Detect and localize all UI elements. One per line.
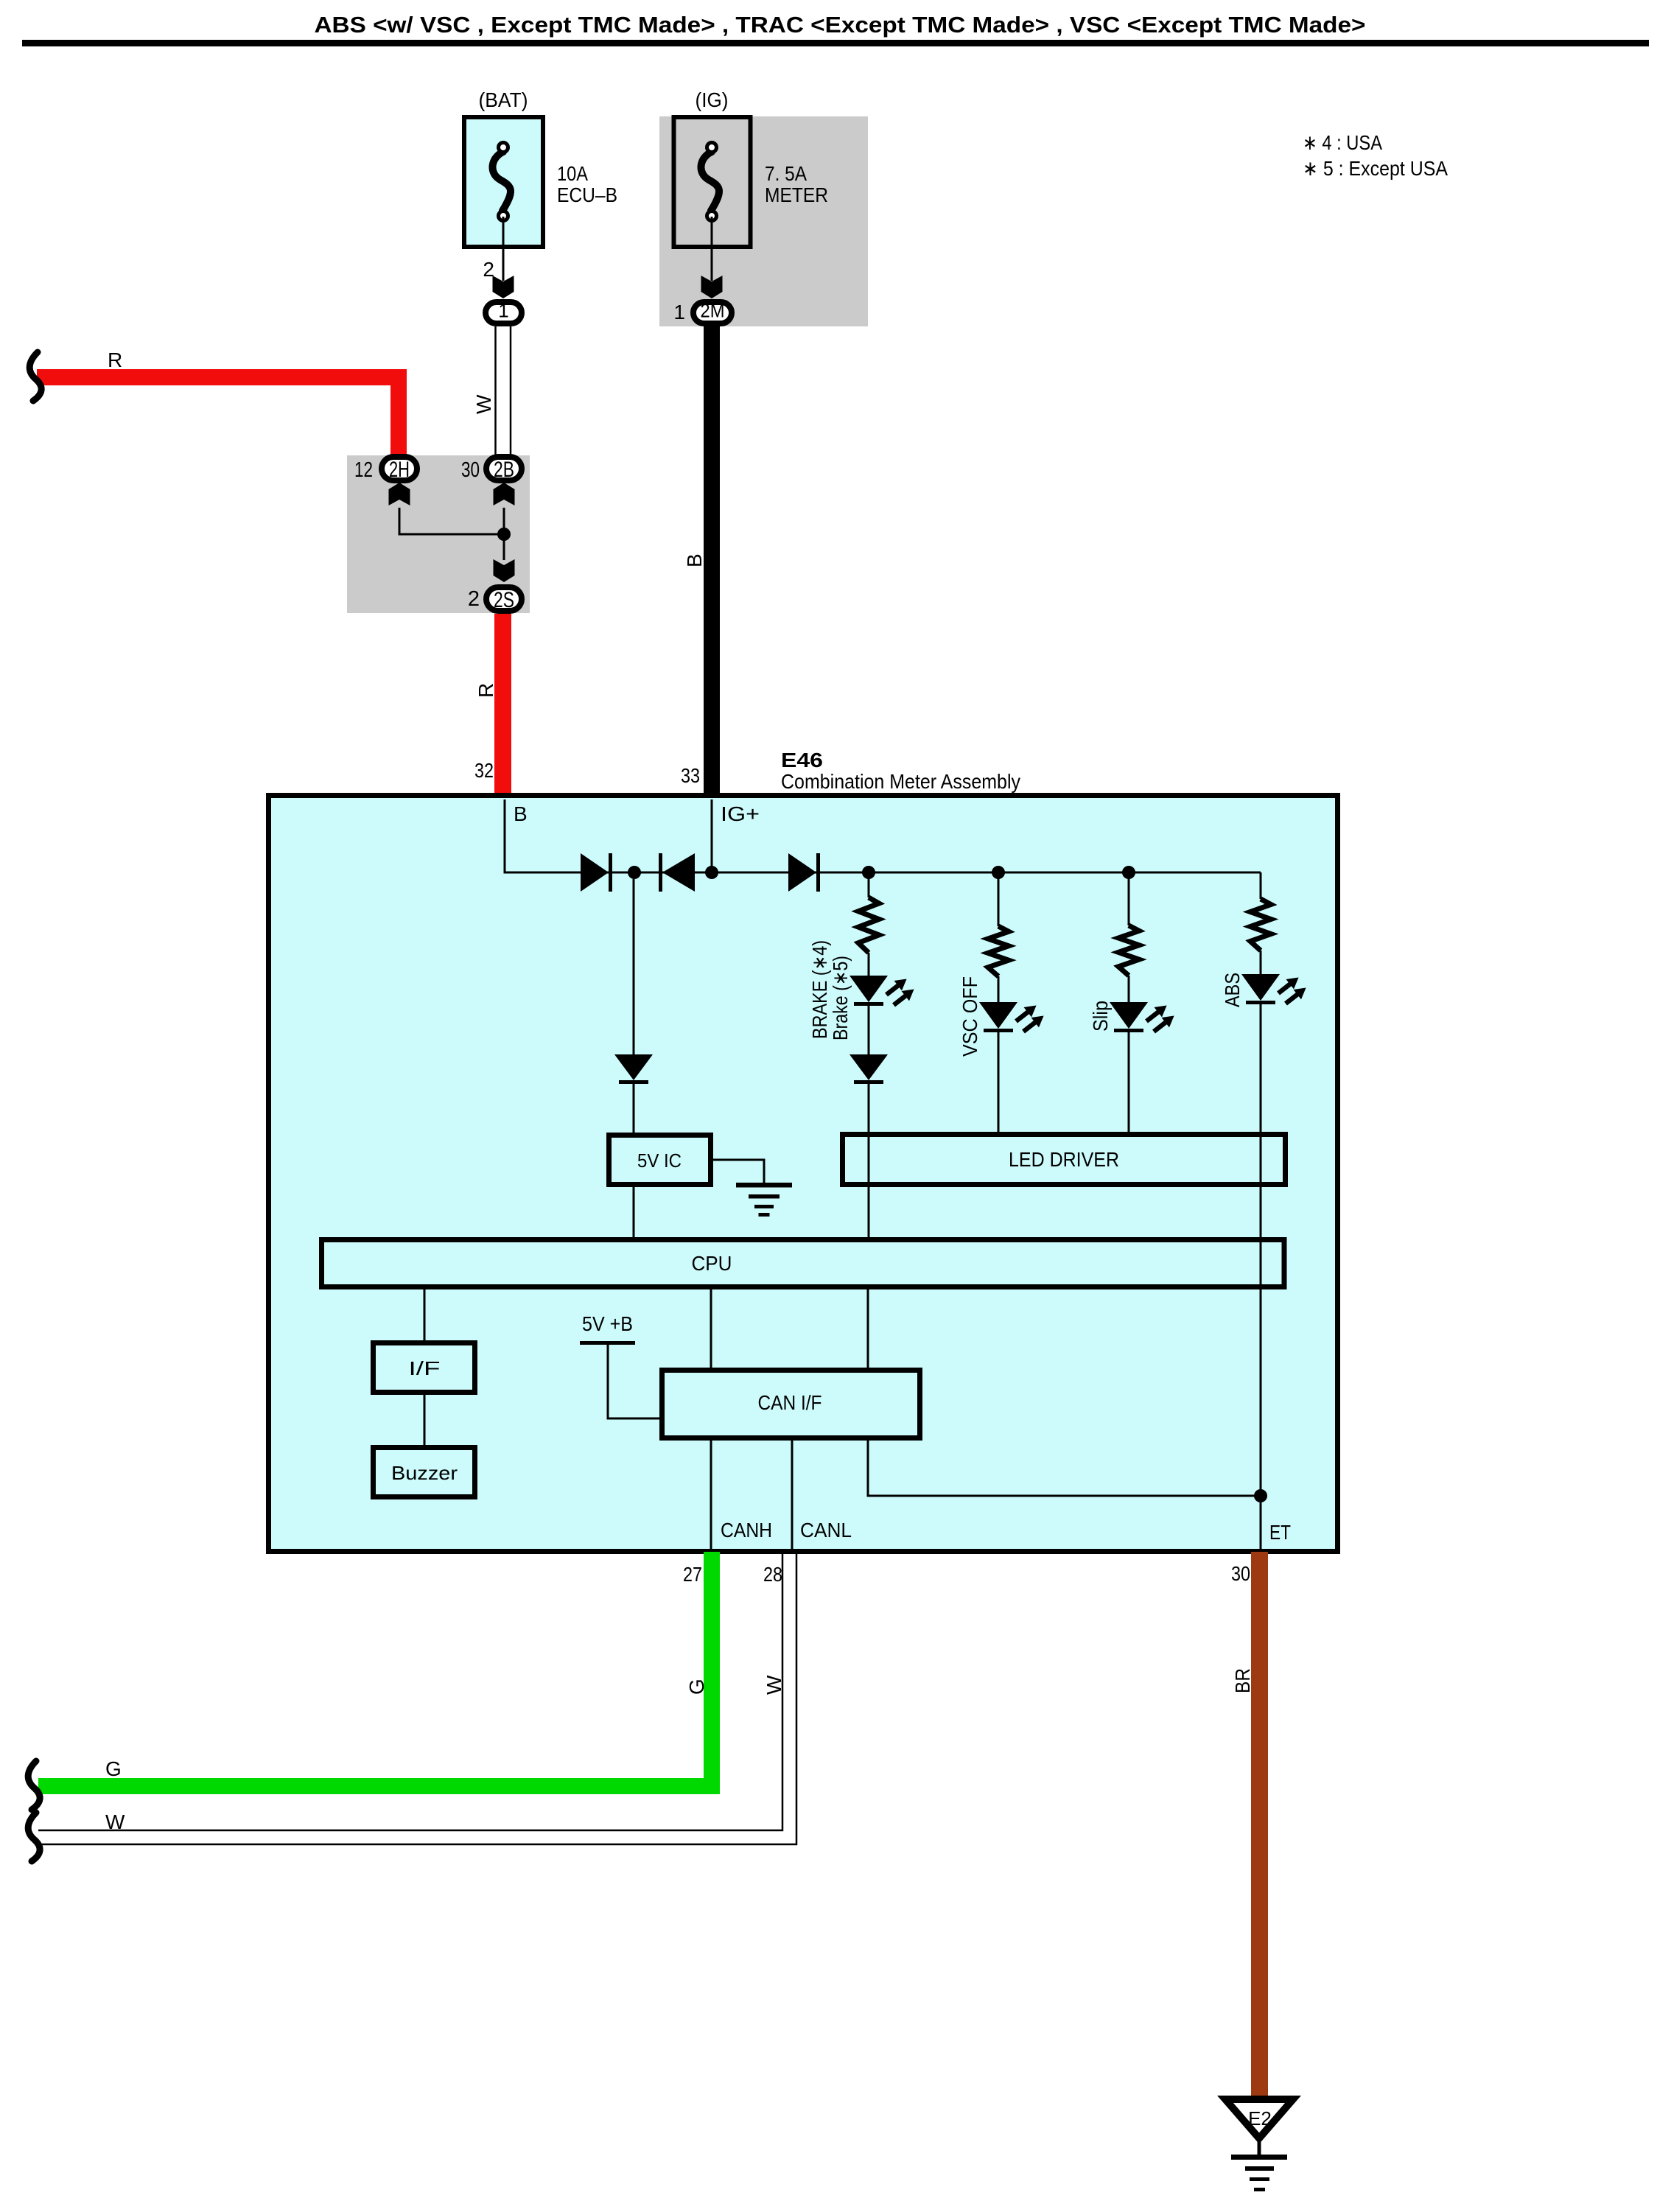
svg-text:7. 5A: 7. 5A bbox=[765, 162, 807, 185]
connector 2S bbox=[486, 587, 522, 611]
svg-text:METER: METER bbox=[765, 183, 828, 206]
svg-text:Brake (∗5): Brake (∗5) bbox=[829, 956, 852, 1040]
fuse 10A ECU-B element bbox=[492, 152, 511, 211]
svg-text:Combination Meter Assembly: Combination Meter Assembly bbox=[781, 770, 1020, 793]
node dot at IG+ junction bbox=[705, 866, 718, 879]
gray harness block around connectors 2H 2B 2S bbox=[347, 455, 530, 613]
svg-text:BR: BR bbox=[1231, 1668, 1254, 1693]
LED Slip indicator bbox=[1110, 1002, 1148, 1029]
svg-text:27: 27 bbox=[683, 1563, 702, 1586]
node dot BRAKE branch bbox=[862, 866, 875, 879]
svg-text:5V +B: 5V +B bbox=[582, 1312, 633, 1335]
node dot VSC OFF branch bbox=[992, 866, 1005, 879]
svg-text:2S: 2S bbox=[494, 588, 514, 612]
fuse 7.5A METER element bbox=[701, 152, 719, 211]
wire: 2B junction vertical bbox=[503, 508, 505, 560]
harness break squiggle (green wire) bbox=[28, 1761, 40, 1810]
diode D4 (down, 5V IC column) bbox=[614, 1054, 653, 1080]
wire: 5V +B to CAN I/F bbox=[608, 1345, 662, 1418]
svg-text:2M: 2M bbox=[701, 300, 725, 322]
diode rail wire bbox=[581, 872, 1261, 874]
wire G: CANH pin 27 (green) bbox=[38, 1552, 712, 1786]
svg-text:2H: 2H bbox=[389, 458, 410, 482]
svg-text:VSC OFF: VSC OFF bbox=[959, 976, 981, 1057]
svg-text:I/F: I/F bbox=[409, 1357, 441, 1379]
diode D2 (pointing left toward node) bbox=[659, 853, 662, 892]
connector 1 bbox=[486, 302, 522, 323]
node dot Slip branch bbox=[1122, 866, 1135, 879]
svg-text:E46: E46 bbox=[781, 749, 823, 771]
svg-text:W: W bbox=[472, 394, 495, 414]
LED DRIVER box bbox=[843, 1135, 1286, 1185]
svg-text:ECU–B: ECU–B bbox=[557, 183, 617, 206]
svg-text:R: R bbox=[474, 683, 497, 698]
wire R: 2S to meter pin 32 (red) bbox=[494, 614, 511, 793]
wire: resistor to LED (ABS) bbox=[1260, 951, 1262, 974]
svg-text:G: G bbox=[105, 1757, 122, 1780]
wire: LED Slip to LED DRIVER bbox=[1128, 1032, 1130, 1135]
wire: CPU to CAN I/F (left) bbox=[710, 1289, 712, 1370]
gray harness block behind IG fuse bbox=[659, 116, 868, 326]
wire: LED to diode (BRAKE) bbox=[868, 1006, 870, 1054]
svg-text:E2: E2 bbox=[1248, 2107, 1272, 2129]
svg-text:2: 2 bbox=[468, 587, 480, 611]
wire: 5V IC to CPU bbox=[633, 1187, 635, 1239]
svg-text:W: W bbox=[105, 1810, 125, 1833]
wire ET: ABS LED through LED DRIVER and CPU to ET node bbox=[1260, 1004, 1262, 1496]
wire: node to resistor (BRAKE) bbox=[868, 872, 870, 897]
svg-text:CANH: CANH bbox=[721, 1519, 772, 1541]
svg-text:CANL: CANL bbox=[800, 1519, 852, 1541]
wire ET to pin 30 bbox=[1260, 1496, 1262, 1549]
LED ABS indicator bbox=[1241, 974, 1280, 1001]
ground connector E2 triangle bbox=[1225, 2099, 1293, 2138]
harness break squiggle (red wire) bbox=[29, 352, 41, 401]
svg-text:33: 33 bbox=[681, 764, 700, 787]
wire: resistor to LED (BRAKE) bbox=[868, 953, 870, 976]
wire: fuse METER to connector 2M bbox=[711, 217, 713, 281]
junction dot in harness block bbox=[497, 528, 511, 541]
power tap bar 5V +B bbox=[580, 1341, 635, 1345]
wire R from ECU-B fuse (horizontal feed) bbox=[37, 377, 399, 455]
wire CANH inside meter bbox=[710, 1441, 712, 1549]
title underline rule bbox=[22, 40, 1649, 46]
connector 2B bbox=[486, 457, 522, 480]
node dot after D1 bbox=[628, 866, 641, 879]
wire: diode D4 to 5V IC box bbox=[633, 1084, 635, 1135]
wire: LED VSC OFF to LED DRIVER bbox=[998, 1032, 1000, 1135]
wire: fuse ECU-B to connector 1 bbox=[502, 217, 505, 281]
resistor (ABS) bbox=[1250, 899, 1271, 951]
interface box I/F bbox=[374, 1343, 475, 1393]
svg-text:30: 30 bbox=[461, 458, 480, 482]
svg-text:IG+: IG+ bbox=[721, 802, 760, 825]
buzzer box bbox=[374, 1448, 475, 1497]
svg-text:Buzzer: Buzzer bbox=[391, 1462, 458, 1484]
svg-text:ET: ET bbox=[1269, 1521, 1291, 1544]
svg-text:5V IC: 5V IC bbox=[637, 1149, 682, 1172]
ground symbol (5V IC) bbox=[736, 1183, 792, 1188]
wire: BRAKE branch through LED DRIVER to CPU bbox=[868, 1084, 870, 1239]
svg-text:∗ 4 : USA: ∗ 4 : USA bbox=[1303, 131, 1382, 154]
connector arrow into 2S bbox=[494, 559, 515, 582]
wire: rail corner down to resistor (ABS) bbox=[1260, 872, 1262, 899]
resistor (VSC OFF) bbox=[988, 926, 1009, 976]
resistor (Slip) bbox=[1118, 925, 1139, 976]
svg-text:10A: 10A bbox=[557, 162, 588, 185]
wire W: connector 1 to 2B (double line) bbox=[494, 326, 497, 455]
svg-text:(BAT): (BAT) bbox=[479, 88, 528, 111]
svg-text:LED DRIVER: LED DRIVER bbox=[1009, 1148, 1119, 1171]
wire: 5V IC to ground bbox=[713, 1160, 764, 1185]
svg-text:(IG): (IG) bbox=[696, 88, 729, 111]
wire B: connector 2M to meter pin 33 (black) bbox=[704, 324, 720, 793]
svg-text:BRAKE (∗4): BRAKE (∗4) bbox=[808, 940, 831, 1039]
wire: I/F to Buzzer bbox=[424, 1395, 426, 1447]
ground symbol E2 bbox=[1231, 2155, 1287, 2160]
combination meter assembly box E46 bbox=[269, 796, 1338, 1552]
wire BR: pin 30 to ground E2 (brown) bbox=[1251, 1552, 1268, 2099]
wire: resistor to LED (VSC OFF) bbox=[998, 976, 1000, 1002]
svg-text:B: B bbox=[514, 802, 528, 825]
wire CANL inside meter bbox=[791, 1441, 794, 1549]
diode D5 (below BRAKE LED) bbox=[849, 1054, 888, 1080]
svg-text:12: 12 bbox=[354, 458, 373, 482]
CPU box bbox=[322, 1240, 1285, 1287]
wire W: CANL pin 28 (double line) bbox=[38, 1552, 782, 1830]
connector arrow into 1 bbox=[493, 276, 514, 298]
wire: node to resistor (VSC OFF) bbox=[998, 872, 1000, 926]
svg-text:1: 1 bbox=[673, 301, 685, 323]
svg-text:ABS <w/ VSC , Except TMC Made>: ABS <w/ VSC , Except TMC Made> , TRAC <E… bbox=[315, 12, 1366, 38]
wire: pin IG+ down to rail bbox=[711, 799, 713, 872]
connector 2M bbox=[693, 302, 732, 323]
svg-text:ABS: ABS bbox=[1221, 973, 1244, 1007]
diode D3 (pointing right) bbox=[788, 853, 816, 892]
fuse 7.5A METER box bbox=[674, 117, 751, 247]
fuse 10A ECU-B box bbox=[464, 117, 543, 247]
svg-text:G: G bbox=[685, 1679, 708, 1695]
svg-text:32: 32 bbox=[474, 759, 494, 782]
svg-text:B: B bbox=[683, 553, 706, 567]
connector 2H bbox=[382, 457, 417, 480]
connector arrow into 2M bbox=[701, 276, 723, 298]
wire: pin B to diode rail bbox=[505, 799, 582, 872]
harness break squiggle (white wire) bbox=[28, 1813, 40, 1861]
wire: node to reverse diode (5V IC column) bbox=[633, 879, 635, 1054]
wire: CPU to I/F bbox=[424, 1289, 426, 1343]
wire: node to resistor (Slip) bbox=[1128, 872, 1130, 925]
svg-text:∗ 5 : Except USA: ∗ 5 : Except USA bbox=[1303, 157, 1448, 180]
wire: junction to 2H bbox=[399, 508, 504, 534]
svg-text:R: R bbox=[108, 349, 122, 371]
svg-text:CPU: CPU bbox=[692, 1252, 732, 1275]
connector arrow into 2H bbox=[389, 483, 410, 505]
svg-text:Slip: Slip bbox=[1089, 1001, 1112, 1032]
svg-text:1: 1 bbox=[498, 300, 508, 322]
svg-text:CAN I/F: CAN I/F bbox=[758, 1391, 822, 1414]
svg-text:30: 30 bbox=[1231, 1562, 1250, 1585]
diode D1 (from B, pointing right) bbox=[581, 853, 609, 892]
wire: E2 to ground bbox=[1258, 2141, 1261, 2156]
wire: CPU to CAN I/F (right) bbox=[867, 1289, 869, 1370]
resistor (BRAKE) bbox=[858, 897, 879, 953]
wire: CAN I/F to ET node bbox=[868, 1441, 1261, 1496]
svg-text:2B: 2B bbox=[494, 458, 514, 482]
CAN interface box CAN I/F bbox=[662, 1371, 920, 1438]
LED VSC OFF indicator bbox=[979, 1002, 1017, 1029]
connector arrow into 2B bbox=[494, 483, 515, 505]
regulator box 5V IC bbox=[609, 1135, 711, 1185]
LED BRAKE indicator bbox=[849, 976, 888, 1002]
wire: resistor to LED (Slip) bbox=[1128, 976, 1130, 1002]
svg-text:28: 28 bbox=[763, 1563, 782, 1586]
node dot ET bbox=[1254, 1489, 1267, 1502]
